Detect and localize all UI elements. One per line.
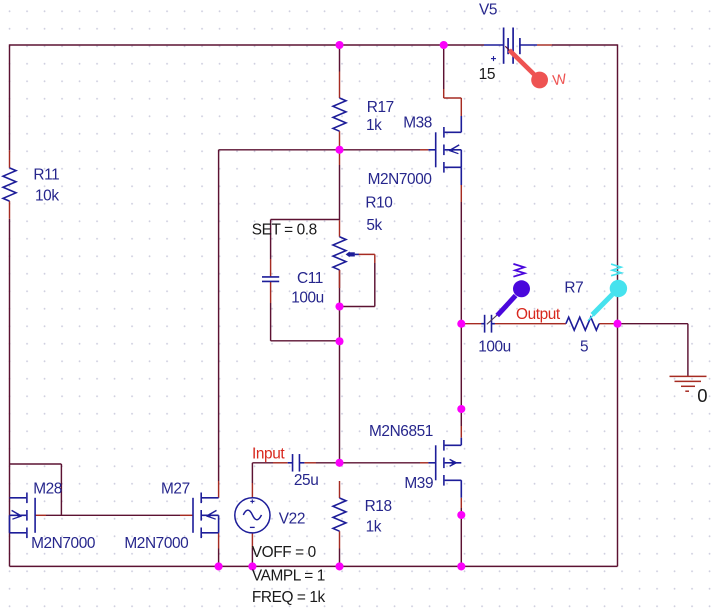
svg-text:M2N7000: M2N7000 xyxy=(368,171,432,188)
svg-text:5k: 5k xyxy=(366,217,382,234)
svg-text:100u: 100u xyxy=(478,339,511,356)
svg-text:M2N6851: M2N6851 xyxy=(369,423,433,440)
svg-text:M2N7000: M2N7000 xyxy=(124,535,188,552)
svg-text:R18: R18 xyxy=(365,498,392,515)
svg-text:R10: R10 xyxy=(365,195,392,212)
svg-text:100u: 100u xyxy=(291,289,324,306)
svg-text:M39: M39 xyxy=(404,475,433,492)
svg-text:R7: R7 xyxy=(564,279,583,296)
svg-text:R11: R11 xyxy=(33,167,59,184)
svg-text:V22: V22 xyxy=(279,511,305,528)
svg-text:M2N7000: M2N7000 xyxy=(31,535,95,552)
svg-text:FREQ = 1k: FREQ = 1k xyxy=(252,589,326,606)
svg-text:5: 5 xyxy=(580,339,588,356)
svg-text:1k: 1k xyxy=(366,117,382,134)
svg-text:1k: 1k xyxy=(366,518,382,535)
svg-text:M27: M27 xyxy=(161,481,190,498)
svg-text:10k: 10k xyxy=(35,188,59,205)
svg-text:25u: 25u xyxy=(294,472,318,489)
svg-text:Output: Output xyxy=(516,306,561,323)
svg-text:15: 15 xyxy=(479,66,495,83)
svg-text:M28: M28 xyxy=(33,481,62,498)
svg-text:V5: V5 xyxy=(479,2,497,19)
svg-text:VAMPL = 1: VAMPL = 1 xyxy=(252,567,325,584)
svg-text:Input: Input xyxy=(252,445,285,462)
svg-text:0: 0 xyxy=(697,385,707,406)
svg-text:W: W xyxy=(552,71,568,89)
svg-text:SET = 0.8: SET = 0.8 xyxy=(252,221,317,238)
svg-text:C11: C11 xyxy=(297,270,323,287)
svg-text:R17: R17 xyxy=(367,99,394,116)
svg-text:M38: M38 xyxy=(403,115,432,132)
svg-text:VOFF = 0: VOFF = 0 xyxy=(252,544,316,561)
